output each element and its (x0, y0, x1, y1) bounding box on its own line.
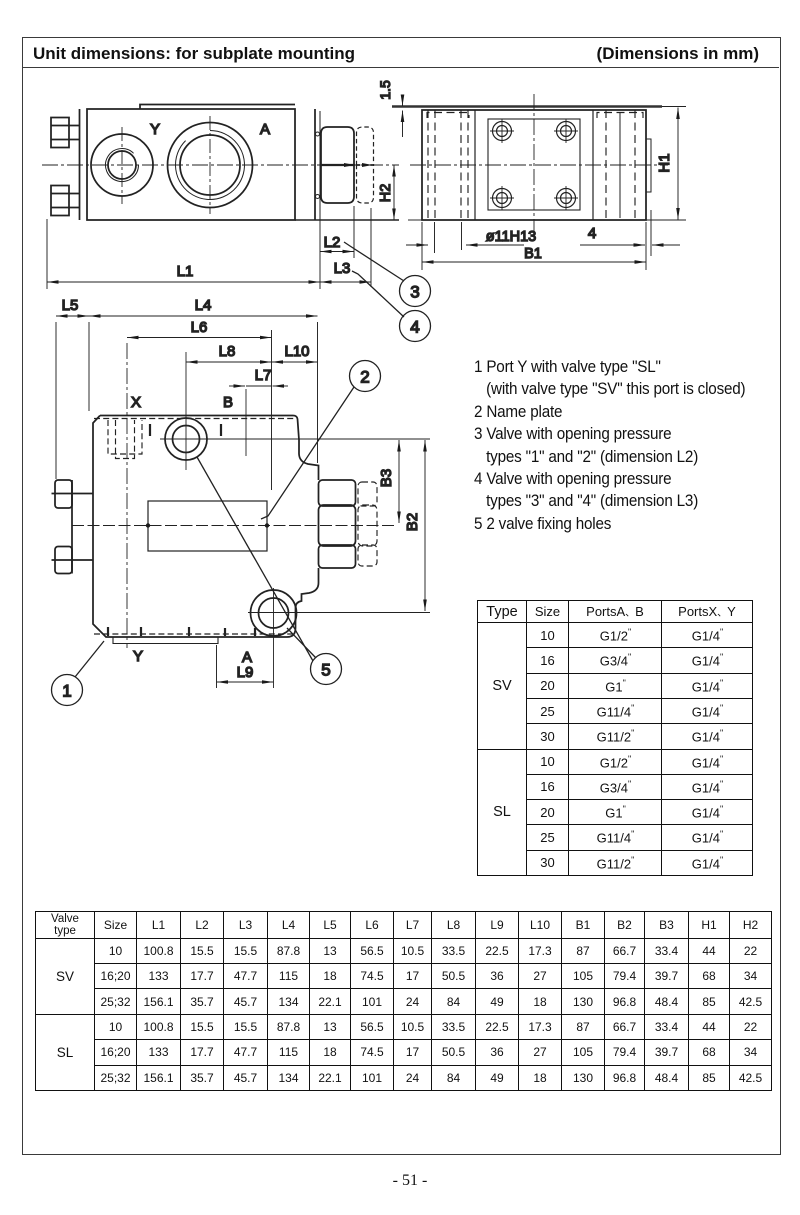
body edge extensions (421, 222, 423, 270)
port B horizontal centerline (160, 438, 430, 440)
bolt face inner square (488, 119, 580, 210)
dim B1 (422, 261, 646, 263)
nut weep holes (316, 132, 320, 136)
left face line (79, 109, 81, 220)
balloon 1 leader (75, 641, 104, 677)
svg-text:ø11H13: ø11H13 (486, 229, 537, 245)
svg-text:H1: H1 (656, 153, 673, 172)
port Y inner circle (108, 151, 136, 179)
svg-text:L9: L9 (237, 664, 254, 681)
bottom edge extension (408, 219, 422, 221)
svg-text:L4: L4 (195, 297, 212, 314)
balloon 5 (311, 654, 342, 685)
valve nut top view band3 (319, 545, 356, 568)
balloon 1 (52, 675, 83, 706)
right step detail (646, 139, 651, 192)
hidden hole lines left section (427, 110, 429, 220)
dim B2 (424, 440, 426, 611)
dim L1 (47, 281, 320, 283)
dim L9 (217, 681, 274, 683)
svg-text:L10: L10 (284, 343, 309, 360)
svg-text:B1: B1 (524, 246, 542, 262)
svg-text:L7: L7 (255, 367, 272, 384)
dim L4 (89, 315, 318, 317)
dim L3 (320, 281, 371, 283)
port B outer (165, 418, 207, 460)
svg-text:L6: L6 (191, 319, 208, 336)
hole extension lines (434, 222, 436, 253)
leader arrows on centerline (344, 163, 355, 167)
svg-text:L5: L5 (62, 297, 79, 314)
dim L3 extension (370, 208, 372, 287)
footer page number (10, 1172, 800, 1190)
bottom-left screw tab (51, 186, 69, 216)
svg-text:4: 4 (410, 318, 419, 337)
top edge tick marks (149, 424, 151, 436)
valve nut solid (two halves) (321, 127, 354, 165)
spool chamber rect (148, 501, 267, 551)
balloon 4 leader (352, 271, 404, 317)
name plate bottom (113, 637, 218, 644)
port A horizontal centerline (248, 612, 430, 614)
balloon 2 (350, 361, 381, 392)
port A outer circle (168, 123, 253, 208)
dim H1 (677, 108, 679, 220)
dim H2 (393, 165, 395, 220)
dim L9 extension left (216, 645, 218, 688)
hidden edge below top (94, 418, 294, 420)
port B vertical centerline (185, 352, 187, 470)
port A vertical centerline (209, 116, 211, 214)
tab face line (71, 480, 73, 574)
dim L10 (272, 361, 318, 363)
svg-text:A: A (260, 121, 270, 138)
top edge extension (662, 106, 686, 108)
svg-text:L3: L3 (334, 260, 351, 277)
left tab lower (55, 547, 72, 574)
top view outline upper part (100, 416, 319, 481)
dim extension L5 left (55, 322, 57, 479)
svg-text:B2: B2 (404, 513, 421, 531)
spool centerline (72, 525, 397, 527)
name plate top (140, 105, 295, 110)
fixing bolt top-right (557, 122, 576, 141)
hidden edge above bottom (94, 633, 293, 635)
dim L5 (56, 315, 89, 317)
spool end dots (146, 523, 150, 527)
dim L2 extension (353, 206, 355, 258)
valve nut dashed alternate (358, 482, 377, 506)
side view centerline horizontal (410, 164, 668, 166)
port B inner (173, 426, 200, 453)
balloon 3 (400, 276, 431, 307)
port Y outer circle (91, 134, 153, 196)
svg-text:5: 5 (321, 661, 330, 680)
balloon 4 (400, 311, 431, 342)
svg-text:Y: Y (133, 648, 143, 665)
valve nut dashed alternate (357, 127, 374, 165)
bottom edge extension to H2 (295, 219, 399, 221)
dim L8 (186, 361, 272, 363)
port B hole line (245, 389, 247, 456)
svg-text:Y: Y (150, 121, 160, 138)
svg-text:B3: B3 (378, 469, 395, 487)
valve cavity lines (314, 109, 316, 220)
balloon 5 leader to port A (287, 628, 316, 658)
svg-text:3: 3 (410, 283, 419, 302)
port A outer (251, 590, 297, 636)
side view body (422, 110, 646, 220)
svg-text:H2: H2 (378, 184, 394, 203)
balloon 3 leader (344, 242, 404, 281)
port A inner (259, 598, 289, 628)
main body front view (87, 109, 295, 220)
port X hidden rect (108, 420, 142, 454)
svg-text:2: 2 (360, 368, 369, 387)
dim L7 (229, 385, 245, 387)
svg-text:L8: L8 (219, 343, 236, 360)
port A inner circle (180, 135, 240, 195)
fixing bolt top-left (493, 122, 512, 141)
dim L1 extension lines (46, 219, 48, 289)
main horizontal centerline (42, 164, 399, 166)
header band (22, 37, 779, 68)
top view outline lower part (93, 416, 319, 638)
top-left screw tab (51, 118, 69, 148)
port A vertical centerline (273, 588, 275, 688)
dim extension L4 right (317, 322, 319, 463)
port Y thread arc (106, 149, 139, 182)
centerline through X (126, 343, 128, 648)
dim 4 (580, 244, 645, 246)
dim B3 (398, 440, 400, 523)
fixing bolt bottom-right (557, 189, 576, 208)
svg-text:X: X (131, 394, 141, 411)
top plate 1.5mm (392, 105, 662, 108)
svg-text:1: 1 (62, 682, 71, 701)
dim extension L4 left (88, 322, 90, 411)
svg-text:B: B (223, 394, 233, 411)
balloon 2 leader (261, 387, 354, 519)
dim extension right common (271, 330, 273, 490)
section divider right (592, 110, 594, 220)
port A thread arc (175, 131, 244, 200)
fixing bolt bottom-left (493, 189, 512, 208)
port Y vertical centerline (121, 127, 123, 204)
side view centerline vertical (533, 94, 535, 234)
svg-text:1.5: 1.5 (377, 80, 393, 100)
hidden hole lines right section (605, 110, 607, 220)
dim L6 (127, 337, 272, 339)
dimensions table (35, 911, 772, 1091)
section divider left (474, 110, 476, 220)
dim L2 (320, 251, 354, 253)
svg-text:L2: L2 (324, 234, 341, 251)
valve nut top view band1 (319, 480, 356, 506)
valve nut top view band2 (319, 505, 356, 546)
legend notes (474, 356, 745, 535)
ports table (477, 600, 753, 876)
dim o11H13 (406, 244, 428, 246)
balloon 5 leader to port B (197, 457, 313, 661)
svg-text:L1: L1 (177, 263, 194, 280)
dim 1.5 (402, 96, 404, 106)
bottom edge tick marks (107, 627, 109, 636)
svg-text:4: 4 (588, 225, 596, 242)
left tab upper (55, 480, 72, 508)
